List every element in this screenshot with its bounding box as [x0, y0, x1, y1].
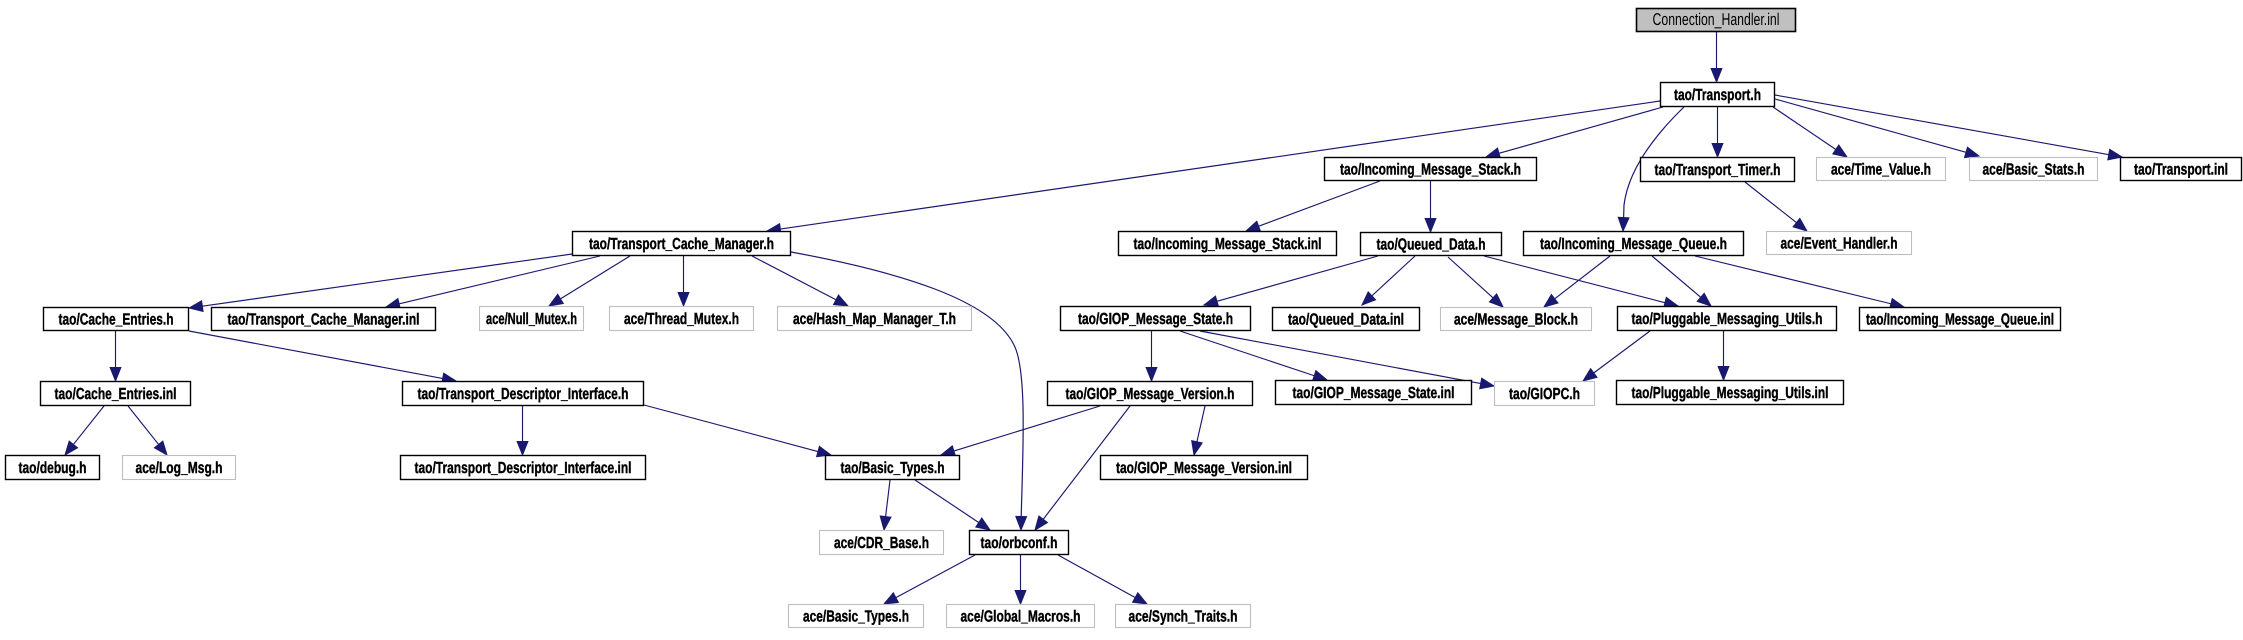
- wire: edge tao/GIOP_Message_State.h -> tao/GIOP_Message_State.inl: [1180, 331, 1327, 381]
- wire: edge tao/GIOP_Message_State.h -> tao/GIOP_Message_Version.h: [1146, 331, 1157, 381]
- svg-text:tao/GIOPC.h: tao/GIOPC.h: [1509, 386, 1580, 403]
- svg-text:tao/Pluggable_Messaging_Utils.: tao/Pluggable_Messaging_Utils.inl: [1632, 385, 1829, 402]
- svg-text:tao/Transport_Cache_Manager.in: tao/Transport_Cache_Manager.inl: [228, 312, 420, 329]
- wire: edge tao/Transport.h -> tao/Transport.inl: [1775, 95, 2122, 160]
- node AI: tao/orbconf.h: [970, 531, 1069, 555]
- node AF: tao/Basic_Types.h: [826, 456, 960, 480]
- wire: edge tao/Incoming_Message_Queue.h -> tao/Incoming_Message_Queue.inl: [1695, 256, 1904, 309]
- node Q: ace/Hash_Map_Manager_T.h: [778, 307, 972, 331]
- node T: ace/Message_Block.h: [1441, 308, 1592, 331]
- node N: tao/Transport_Cache_Manager.inl: [212, 308, 436, 331]
- wire: edge tao/Incoming_Message_Stack.h -> tao/Queued_Data.h: [1425, 181, 1436, 232]
- node G: tao/Transport.inl: [2121, 158, 2242, 181]
- svg-text:tao/Incoming_Message_Stack.h: tao/Incoming_Message_Stack.h: [1340, 162, 1521, 179]
- node J: tao/Queued_Data.h: [1361, 233, 1502, 256]
- node S: tao/Queued_Data.inl: [1273, 308, 1420, 331]
- node AE: tao/Transport_Descriptor_Interface.inl: [401, 456, 646, 480]
- svg-text:ace/Basic_Types.h: ace/Basic_Types.h: [803, 609, 909, 626]
- svg-text:tao/Basic_Types.h: tao/Basic_Types.h: [841, 460, 945, 477]
- node O: ace/Null_Mutex.h: [480, 307, 584, 331]
- svg-text:tao/GIOP_Message_Version.inl: tao/GIOP_Message_Version.inl: [1116, 460, 1292, 477]
- wire: edge tao/Cache_Entries.inl -> ace/Log_Msg.h: [128, 406, 167, 455]
- svg-text:ace/Thread_Mutex.h: ace/Thread_Mutex.h: [624, 311, 739, 328]
- node AC: tao/debug.h: [6, 456, 100, 480]
- svg-text:ace/Log_Msg.h: ace/Log_Msg.h: [136, 460, 223, 477]
- wire: edge tao/Transport_Cache_Manager.h -> ace/Null_Mutex.h: [549, 256, 630, 306]
- node R: tao/GIOP_Message_State.h: [1061, 307, 1251, 331]
- node M: tao/Cache_Entries.h: [44, 308, 189, 331]
- svg-text:ace/Time_Value.h: ace/Time_Value.h: [1831, 162, 1931, 179]
- wire: edge tao/Transport_Cache_Manager.h -> ace/Thread_Mutex.h: [678, 256, 689, 306]
- svg-text:Connection_Handler.inl: Connection_Handler.inl: [1653, 10, 1780, 29]
- wire: edge tao/Queued_Data.h -> tao/GIOP_Message_State.h: [1204, 256, 1378, 307]
- wire: edge tao/Transport_Cache_Manager.h -> ace/Hash_Map_Manager_T.h: [752, 256, 848, 306]
- node K: tao/Incoming_Message_Queue.h: [1524, 232, 1744, 256]
- wire: edge tao/Queued_Data.h -> tao/Queued_Data.inl: [1362, 256, 1415, 305]
- wire: edge tao/Basic_Types.h -> tao/orbconf.h: [915, 480, 990, 530]
- node Y: tao/GIOP_Message_Version.h: [1048, 382, 1253, 406]
- wire: edge tao/Transport_Descriptor_Interface.h -> tao/Transport_Descriptor_Interface.inl: [517, 406, 528, 455]
- svg-text:tao/Pluggable_Messaging_Utils.: tao/Pluggable_Messaging_Utils.h: [1632, 311, 1823, 328]
- svg-text:tao/Transport.h: tao/Transport.h: [1674, 87, 1761, 104]
- node AK: ace/Global_Macros.h: [947, 605, 1095, 628]
- node L: ace/Event_Handler.h: [1767, 232, 1912, 255]
- wire: edge tao/Transport_Descriptor_Interface.h -> tao/Basic_Types.h: [644, 405, 831, 457]
- wire: edge tao/Transport_Cache_Manager.h -> tao/orbconf.h: [791, 252, 1027, 530]
- svg-text:ace/Message_Block.h: ace/Message_Block.h: [1454, 312, 1578, 329]
- wire: edge tao/Transport_Timer.h -> ace/Event_Handler.h: [1745, 182, 1807, 231]
- svg-text:tao/Cache_Entries.inl: tao/Cache_Entries.inl: [55, 386, 177, 403]
- node E: ace/Time_Value.h: [1817, 158, 1946, 181]
- wire: edge tao/Incoming_Message_Queue.h -> ace/Message_Block.h: [1544, 256, 1610, 307]
- svg-text:tao/Queued_Data.h: tao/Queued_Data.h: [1377, 237, 1486, 254]
- wire: edge tao/Transport.h -> tao/Incoming_Message_Queue.h: [1618, 107, 1684, 231]
- svg-text:tao/Incoming_Message_Stack.inl: tao/Incoming_Message_Stack.inl: [1134, 236, 1322, 253]
- wire: edge tao/Incoming_Message_Queue.h -> tao/Pluggable_Messaging_Utils.h: [1652, 256, 1711, 306]
- svg-text:tao/Transport_Descriptor_Inter: tao/Transport_Descriptor_Interface.inl: [415, 460, 632, 477]
- node AJ: ace/Basic_Types.h: [789, 605, 924, 628]
- wire: edge tao/Transport_Cache_Manager.h -> tao/Transport_Cache_Manager.inl: [386, 256, 600, 309]
- node AH: ace/CDR_Base.h: [820, 531, 944, 555]
- svg-text:tao/Transport.inl: tao/Transport.inl: [2134, 162, 2228, 179]
- svg-text:tao/debug.h: tao/debug.h: [19, 460, 87, 477]
- wire: edge tao/Cache_Entries.inl -> tao/debug.h: [65, 406, 104, 455]
- wire: edge tao/GIOP_Message_State.h -> tao/GIOPC.h: [1200, 331, 1494, 389]
- wire: edge Connection_Handler.inl -> tao/Transport.h: [1711, 32, 1722, 82]
- wire: edge tao/Transport.h -> tao/Transport_Cache_Manager.h: [767, 101, 1660, 234]
- svg-text:tao/Cache_Entries.h: tao/Cache_Entries.h: [59, 312, 174, 329]
- wire: edge tao/orbconf.h -> ace/Global_Macros.h: [1015, 555, 1026, 604]
- wire: edge tao/Transport.h -> tao/Transport_Timer.h: [1712, 107, 1723, 157]
- node P: ace/Thread_Mutex.h: [610, 307, 754, 331]
- node U: tao/Pluggable_Messaging_Utils.h: [1618, 307, 1837, 331]
- wire: edge tao/GIOP_Message_Version.h -> tao/Basic_Types.h: [941, 406, 1100, 456]
- wire: edge tao/Queued_Data.h -> ace/Message_Block.h: [1448, 257, 1503, 307]
- svg-text:ace/CDR_Base.h: ace/CDR_Base.h: [834, 535, 929, 552]
- node B: tao/Transport.h: [1661, 83, 1775, 107]
- wire: edge tao/GIOP_Message_Version.h -> tao/orbconf.h: [1035, 406, 1130, 530]
- node AL: ace/Synch_Traits.h: [1116, 605, 1251, 628]
- wire: edge tao/Incoming_Message_Stack.h -> tao/Incoming_Message_Stack.inl: [1246, 181, 1380, 231]
- node Z: tao/GIOP_Message_State.inl: [1276, 381, 1472, 405]
- svg-text:ace/Hash_Map_Manager_T.h: ace/Hash_Map_Manager_T.h: [793, 311, 956, 328]
- wire: edge tao/Transport_Cache_Manager.h -> tao/Cache_Entries.h: [189, 254, 572, 312]
- node W: tao/Cache_Entries.inl: [41, 382, 191, 406]
- wire: edge tao/Transport.h -> tao/Incoming_Message_Stack.h: [1486, 107, 1663, 159]
- svg-text:ace/Global_Macros.h: ace/Global_Macros.h: [961, 609, 1081, 626]
- wire: edge tao/Basic_Types.h -> ace/CDR_Base.h: [880, 480, 891, 530]
- node AG: tao/GIOP_Message_Version.inl: [1101, 456, 1308, 480]
- svg-text:tao/Transport_Descriptor_Inter: tao/Transport_Descriptor_Interface.h: [418, 386, 629, 403]
- node AA: tao/GIOPC.h: [1495, 382, 1595, 406]
- svg-text:tao/GIOP_Message_Version.h: tao/GIOP_Message_Version.h: [1066, 386, 1235, 403]
- svg-text:tao/GIOP_Message_State.inl: tao/GIOP_Message_State.inl: [1293, 385, 1455, 402]
- svg-text:ace/Basic_Stats.h: ace/Basic_Stats.h: [1983, 162, 2085, 179]
- svg-text:tao/Incoming_Message_Queue.inl: tao/Incoming_Message_Queue.inl: [1866, 312, 2054, 329]
- wire: edge tao/Pluggable_Messaging_Utils.h -> tao/Pluggable_Messaging_Utils.inl: [1718, 331, 1729, 380]
- node AD: ace/Log_Msg.h: [123, 456, 236, 480]
- svg-text:tao/GIOP_Message_State.h: tao/GIOP_Message_State.h: [1078, 311, 1233, 328]
- node D: tao/Transport_Timer.h: [1641, 158, 1795, 182]
- node I: tao/Incoming_Message_Stack.inl: [1119, 232, 1337, 256]
- node F: ace/Basic_Stats.h: [1970, 158, 2098, 181]
- svg-text:ace/Synch_Traits.h: ace/Synch_Traits.h: [1129, 609, 1238, 626]
- node C: tao/Incoming_Message_Stack.h: [1325, 158, 1537, 181]
- wire: edge tao/orbconf.h -> ace/Synch_Traits.h: [1058, 555, 1147, 604]
- wire: edge tao/GIOP_Message_Version.h -> tao/GIOP_Message_Version.inl: [1192, 406, 1205, 455]
- node AB: tao/Pluggable_Messaging_Utils.inl: [1617, 381, 1844, 405]
- node X: tao/Transport_Descriptor_Interface.h: [403, 382, 644, 406]
- node H: tao/Transport_Cache_Manager.h: [573, 232, 791, 256]
- wire: edge tao/orbconf.h -> ace/Basic_Types.h: [884, 555, 975, 604]
- node A: Connection_Handler.inl: [1637, 9, 1796, 32]
- svg-text:ace/Null_Mutex.h: ace/Null_Mutex.h: [486, 311, 577, 328]
- wire: edge tao/Pluggable_Messaging_Utils.h -> tao/GIOPC.h: [1583, 331, 1650, 381]
- wire: edge tao/Transport.h -> ace/Basic_Stats.h: [1775, 99, 1979, 158]
- node V: tao/Incoming_Message_Queue.inl: [1860, 308, 2061, 331]
- wire: edge tao/Cache_Entries.h -> tao/Transport_Descriptor_Interface.h: [189, 331, 456, 384]
- svg-text:tao/Queued_Data.inl: tao/Queued_Data.inl: [1288, 312, 1404, 329]
- svg-text:tao/Incoming_Message_Queue.h: tao/Incoming_Message_Queue.h: [1540, 236, 1727, 253]
- svg-text:tao/orbconf.h: tao/orbconf.h: [981, 535, 1058, 552]
- wire: edge tao/Transport.h -> ace/Time_Value.h: [1773, 107, 1847, 157]
- svg-text:tao/Transport_Cache_Manager.h: tao/Transport_Cache_Manager.h: [589, 236, 774, 253]
- svg-text:ace/Event_Handler.h: ace/Event_Handler.h: [1781, 236, 1898, 253]
- wire: edge tao/Cache_Entries.h -> tao/Cache_Entries.inl: [110, 331, 121, 381]
- svg-text:tao/Transport_Timer.h: tao/Transport_Timer.h: [1655, 162, 1781, 179]
- wire: edge tao/Queued_Data.h -> tao/Pluggable_Messaging_Utils.h: [1484, 256, 1678, 308]
